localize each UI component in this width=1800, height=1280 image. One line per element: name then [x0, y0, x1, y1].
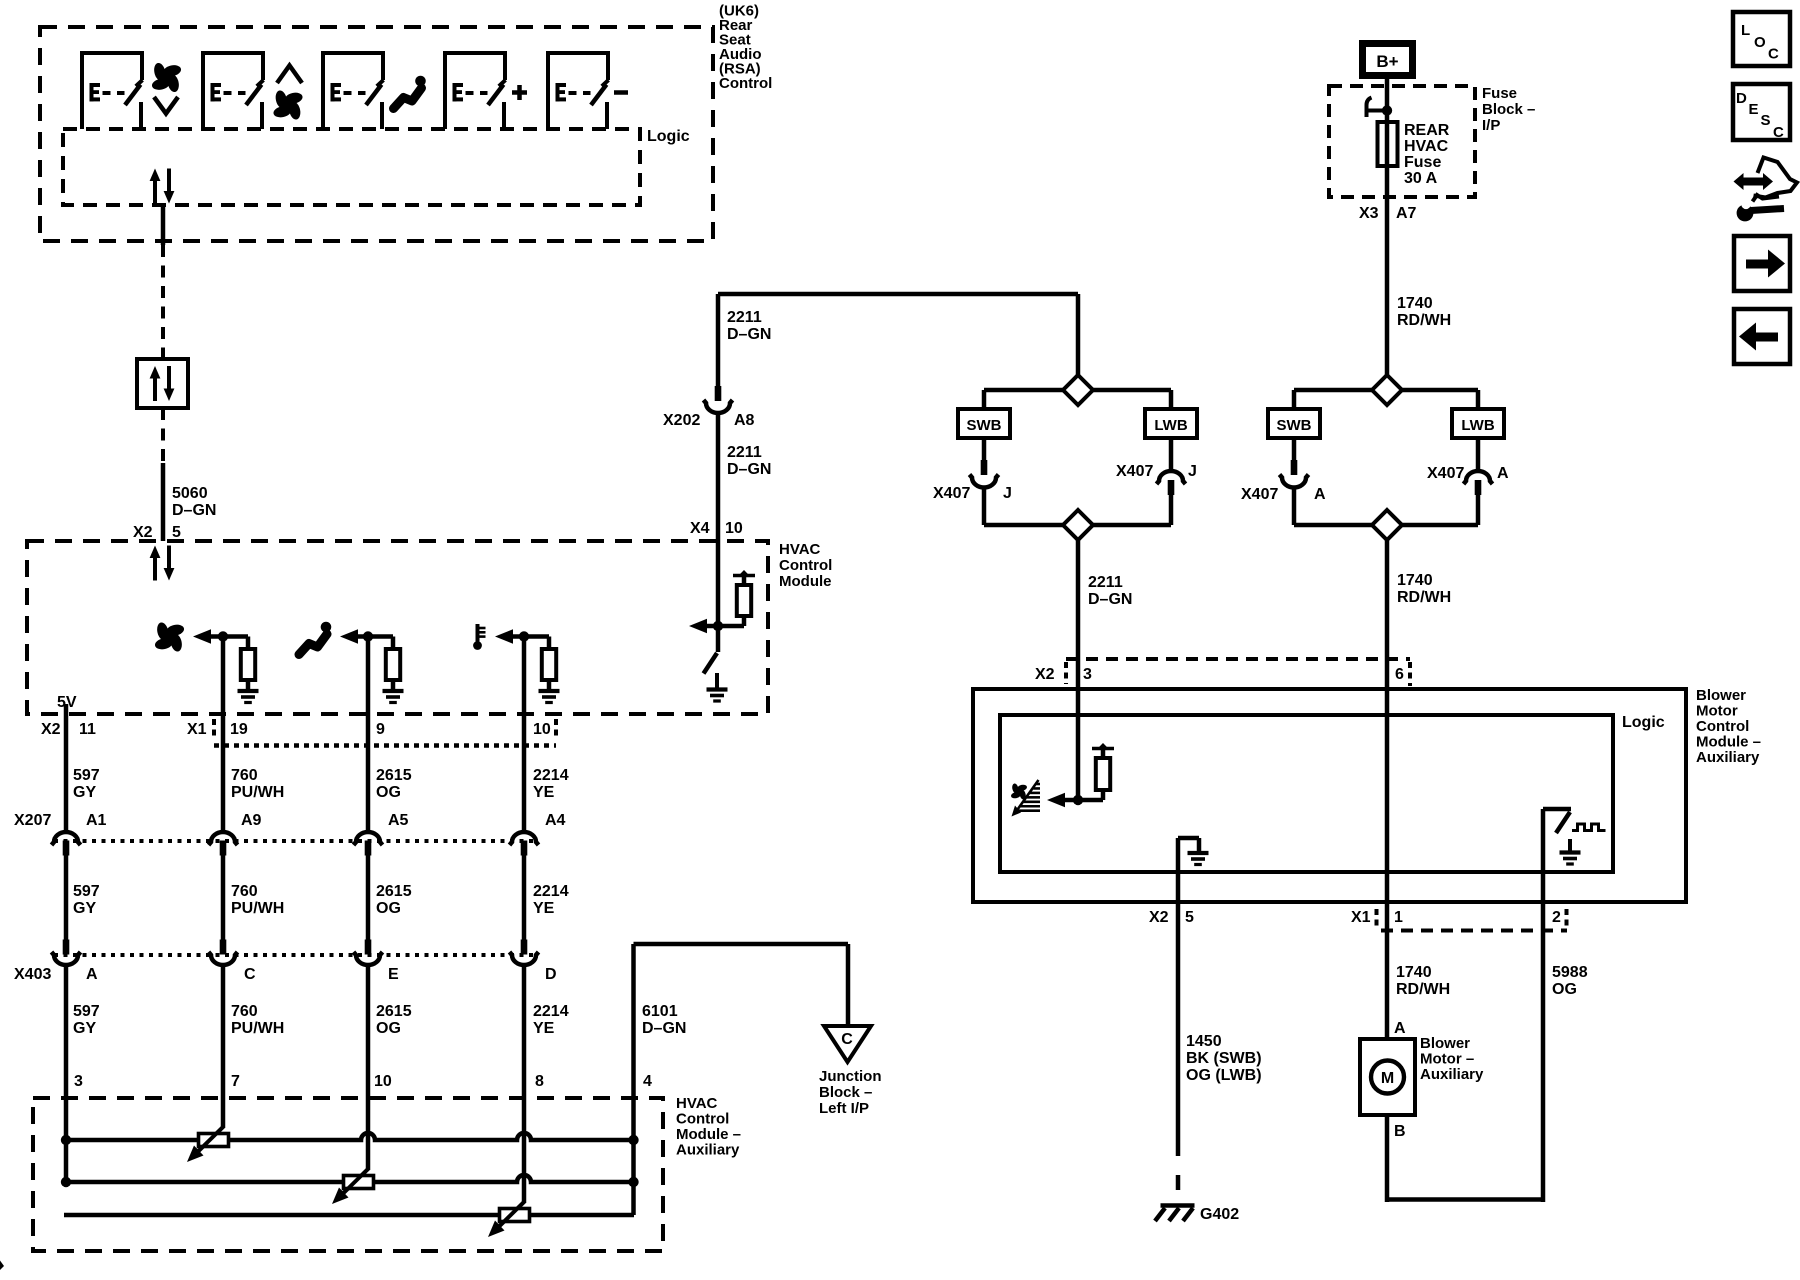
svg-text:11: 11 — [79, 721, 96, 738]
svg-text:D: D — [545, 966, 557, 983]
RSA control outer dashed box — [40, 27, 713, 241]
connector X407 right half — [1157, 471, 1186, 484]
resistor fan channel — [241, 649, 255, 680]
svg-text:J: J — [1188, 463, 1197, 480]
svg-text:1: 1 — [1394, 909, 1403, 926]
page edge artifact mark — [0, 1261, 4, 1271]
connector X207 halves at x=524 — [510, 832, 539, 845]
ground thermo channel — [539, 689, 560, 693]
svg-text:X407: X407 — [1241, 486, 1278, 503]
wire below LWB — [1169, 438, 1174, 472]
svg-text:X4: X4 — [690, 520, 710, 537]
LOC reference box — [1733, 12, 1790, 66]
wire fan channel to resistor — [223, 634, 248, 639]
svg-text:Logic: Logic — [1622, 714, 1665, 731]
svg-text:HVACControlModule: HVACControlModule — [779, 541, 832, 590]
svg-text:10: 10 — [533, 721, 551, 738]
svg-text:JunctionBlock –Left I/P: JunctionBlock –Left I/P — [819, 1068, 882, 1117]
svg-text:2214YE: 2214YE — [533, 767, 569, 801]
wire splice to LWB branch — [1402, 388, 1478, 393]
svg-text:2211D–GN: 2211D–GN — [1088, 574, 1132, 608]
svg-text:760PU/WH: 760PU/WH — [231, 767, 284, 801]
splice diamond top — [1372, 375, 1402, 405]
svg-text:X2: X2 — [133, 524, 153, 541]
svg-text:X1: X1 — [187, 721, 207, 738]
connector X407 left half — [981, 460, 988, 475]
svg-text:A: A — [1394, 1020, 1406, 1037]
Blower Motor Auxiliary box — [1360, 1039, 1415, 1115]
svg-text:5060D–GN: 5060D–GN — [172, 485, 216, 519]
svg-text:2615OG: 2615OG — [376, 1003, 412, 1037]
icon thermometer channel — [476, 624, 480, 643]
connector X1 dotted bracket — [212, 719, 216, 738]
node 2211 logic junction — [1073, 795, 1083, 805]
svg-text:B+: B+ — [1376, 52, 1398, 71]
svg-text:X207: X207 — [14, 812, 51, 829]
svg-text:597GY: 597GY — [73, 1003, 100, 1037]
PWM square wave symbol — [1572, 824, 1606, 831]
wire 760 PU/WH seg3 — [221, 966, 226, 1127]
svg-text:3: 3 — [74, 1073, 83, 1090]
connector X403 halves at x=368 — [365, 940, 372, 955]
connector X207 halves at x=368 — [354, 832, 383, 845]
wire 1740 to splice diamond — [1385, 197, 1390, 375]
connector X207 halves at x=66 — [52, 832, 81, 845]
bus line 2 in aux module — [64, 1175, 634, 1182]
svg-text:A: A — [86, 966, 98, 983]
svg-text:M: M — [1381, 1070, 1394, 1087]
connector X1 dashed bracket blower — [1381, 929, 1567, 933]
wire resistor to ground — [246, 680, 251, 691]
svg-text:760PU/WH: 760PU/WH — [231, 883, 284, 917]
wire X2-5 ground lead — [1176, 838, 1181, 1141]
wire 2211 riser to splice — [1076, 294, 1081, 375]
svg-text:2615OG: 2615OG — [376, 767, 412, 801]
wire 2211 top horizontal — [718, 292, 1078, 297]
wire X407 left to splice bottom — [1292, 487, 1297, 525]
svg-text:2211D–GN: 2211D–GN — [727, 309, 771, 343]
svg-text:BlowerMotor –Auxiliary: BlowerMotor –Auxiliary — [1420, 1035, 1484, 1083]
icon fan channel — [154, 621, 185, 652]
svg-text:Logic: Logic — [647, 128, 690, 145]
DESC reference box — [1733, 84, 1790, 140]
svg-text:A1: A1 — [86, 812, 107, 829]
wire 760 PU/WH seg1 — [221, 637, 226, 832]
wire 6101 drop to junction block — [846, 944, 851, 1027]
wire 2211 splice to blower module — [1076, 540, 1081, 800]
connector X403 halves at x=524 — [521, 940, 528, 955]
svg-text:1740RD/WH: 1740RD/WH — [1397, 295, 1451, 329]
connector X403 halves at x=223 — [220, 940, 227, 955]
B+ battery feed box — [1363, 44, 1413, 76]
wire B+ to fuse — [1385, 79, 1390, 197]
wire below LWB — [1476, 438, 1481, 472]
wire resistor to actuator bar blower — [1101, 750, 1106, 758]
switch S5 minus — [548, 53, 609, 129]
svg-text:L: L — [1741, 22, 1750, 39]
svg-text:X403: X403 — [14, 966, 51, 983]
icon fan up — [277, 66, 302, 84]
ground G402 chassis — [1161, 1203, 1195, 1208]
svg-text:X2: X2 — [1149, 909, 1169, 926]
wire motor B return — [1385, 1115, 1390, 1202]
wire serial data solid segment below RSA logic — [161, 205, 166, 245]
svg-text:4: 4 — [643, 1073, 652, 1090]
svg-text:1740RD/WH: 1740RD/WH — [1397, 572, 1451, 606]
svg-text:8: 8 — [535, 1073, 544, 1090]
svg-text:A7: A7 — [1396, 205, 1417, 222]
node seat channel junction — [363, 631, 373, 641]
svg-text:HVACControlModule –Auxiliary: HVACControlModule –Auxiliary — [676, 1095, 741, 1159]
wire 2615 OG seg3 — [366, 966, 371, 1169]
svg-text:2214YE: 2214YE — [533, 883, 569, 917]
svg-text:6101D–GN: 6101D–GN — [642, 1003, 686, 1037]
wire 5060 solid segment — [161, 463, 166, 541]
wire 2214 YE seg3 — [522, 966, 527, 1202]
arrow to fan icon — [193, 629, 211, 644]
icon seat recline — [394, 76, 426, 109]
wire 2615 OG seg1 — [366, 637, 371, 832]
svg-text:SWB: SWB — [1277, 417, 1312, 434]
arrow to thermometer icon — [495, 629, 513, 644]
svg-text:9: 9 — [376, 721, 385, 738]
wire 597 GY seg2 — [64, 855, 69, 940]
wire resistor to ground 3 — [547, 680, 552, 691]
splice diamond bottom — [1372, 510, 1402, 540]
svg-text:LWB: LWB — [1461, 417, 1494, 434]
svg-text:X3: X3 — [1359, 205, 1379, 222]
node fan channel junction — [218, 631, 228, 641]
arrow to seat icon — [340, 629, 358, 644]
wire ground return in logic box — [1178, 836, 1199, 841]
HVAC updown arrows — [153, 557, 157, 581]
forward reference arrow box — [1734, 236, 1790, 291]
svg-text:O: O — [1754, 34, 1766, 51]
actuator bar blower — [1092, 747, 1114, 751]
LWB option box — [1145, 409, 1197, 438]
RSA logic updown arrows — [153, 180, 157, 204]
svg-text:A: A — [1497, 465, 1509, 482]
svg-text:BlowerMotorControlModule –Auxi: BlowerMotorControlModule –Auxiliary — [1696, 687, 1761, 766]
Blower Motor Control Module outer box — [973, 689, 1686, 902]
svg-text:A: A — [1314, 486, 1326, 503]
svg-text:FuseBlock –I/P: FuseBlock –I/P — [1482, 85, 1535, 134]
switch S1 fan-down — [82, 53, 143, 129]
icon fan down — [151, 62, 182, 93]
wire 5V stub — [64, 704, 69, 714]
svg-text:10: 10 — [374, 1073, 392, 1090]
connector X403 halves at x=66 — [63, 940, 70, 955]
switch blade to ground in HVAC module — [716, 626, 721, 652]
LWB option box — [1452, 409, 1504, 438]
backward reference arrow box — [1734, 309, 1790, 364]
svg-text:X1: X1 — [1351, 909, 1371, 926]
junction block triangle C — [824, 1026, 871, 1062]
splice diamond bottom — [1063, 510, 1093, 540]
arrow blower speed input — [1047, 793, 1065, 808]
switch S2 fan-up — [203, 53, 264, 129]
wire splice to SWB branch — [984, 388, 1063, 393]
connector X2-3 dashed line at blower module — [1066, 657, 1410, 661]
wire 2615 OG seg2 — [366, 855, 371, 940]
svg-text:A4: A4 — [545, 812, 566, 829]
svg-text:5988OG: 5988OG — [1552, 964, 1588, 998]
svg-text:10: 10 — [725, 520, 743, 537]
svg-text:1740RD/WH: 1740RD/WH — [1396, 964, 1450, 998]
svg-text:X202: X202 — [663, 412, 700, 429]
svg-text:5: 5 — [172, 524, 181, 541]
wire 2211 drop to X202 — [716, 294, 721, 386]
wire junction to resistor 2211 — [718, 624, 744, 629]
svg-text:2211D–GN: 2211D–GN — [727, 444, 771, 478]
ground seat channel — [383, 689, 404, 693]
svg-text:2: 2 — [1552, 909, 1561, 926]
wire dashed below arrow box — [161, 408, 165, 463]
svg-text:2214YE: 2214YE — [533, 1003, 569, 1037]
wire 2214 YE seg2 — [522, 855, 527, 940]
svg-text:C: C — [1768, 46, 1779, 63]
service icon middle stroke — [1753, 195, 1780, 202]
actuator bar 2211 — [733, 574, 755, 578]
svg-text:SWB: SWB — [967, 417, 1002, 434]
potentiometer on bus line 3 — [496, 1201, 525, 1230]
icon plus — [512, 90, 527, 95]
service icon squiggle outline — [1754, 158, 1798, 198]
wire 6101 horizontal — [634, 942, 849, 947]
node bus junction dots right — [628, 1135, 638, 1145]
svg-text:S: S — [1761, 112, 1771, 129]
node bus junction dots left — [61, 1135, 71, 1145]
node thermo channel junction — [519, 631, 529, 641]
svg-text:3: 3 — [1083, 666, 1092, 683]
SWB option box — [958, 409, 1010, 438]
bus line 3 in aux module — [64, 1213, 634, 1218]
svg-text:X2: X2 — [1035, 666, 1055, 683]
svg-text:597GY: 597GY — [73, 767, 100, 801]
icon seat channel — [299, 622, 331, 655]
wire seat channel to resistor — [368, 634, 393, 639]
wire 6101 vertical — [631, 944, 636, 1215]
connector X407 left half — [1291, 460, 1298, 475]
Fuse Block IP dashed box — [1329, 86, 1475, 197]
HVAC Control Module dashed box — [27, 541, 768, 714]
node 2211 junction — [713, 621, 723, 631]
service icon double arrow — [1734, 173, 1774, 190]
svg-text:G402: G402 — [1200, 1206, 1239, 1223]
Blower module Logic box — [1000, 715, 1613, 872]
PWM switch in logic box — [1543, 807, 1571, 812]
wire splice to SWB branch — [1294, 388, 1372, 393]
wire resistor to ground 2 — [391, 680, 396, 691]
wire below SWB — [1292, 438, 1297, 461]
svg-text:J: J — [1003, 485, 1012, 502]
connector X403 plane dotted line — [54, 953, 537, 957]
wire 2214 YE seg1 — [522, 637, 527, 832]
svg-text:7: 7 — [231, 1073, 240, 1090]
splice diamond top — [1063, 375, 1093, 405]
wire dashed serial data from RSA logic — [161, 245, 165, 359]
service icon wrench — [1737, 205, 1754, 222]
wire resistor to actuator bar — [742, 577, 747, 585]
svg-text:A5: A5 — [388, 812, 409, 829]
icon minus — [614, 90, 628, 95]
svg-text:597GY: 597GY — [73, 883, 100, 917]
blower motor M circle — [1371, 1061, 1404, 1094]
potentiometer on bus line 2 — [340, 1168, 369, 1197]
wire 1740 splice to blower module — [1385, 540, 1390, 1039]
arrow 2211 logic input — [689, 619, 707, 634]
SWB option box — [1268, 409, 1320, 438]
connector X407 right half — [1464, 471, 1493, 484]
svg-text:C: C — [244, 966, 256, 983]
ground fan channel — [238, 689, 259, 693]
switch S4 plus — [445, 53, 506, 129]
switch S3 seat — [323, 53, 384, 129]
wire splice to LWB branch — [1093, 388, 1171, 393]
svg-text:REARHVACFuse30 A: REARHVACFuse30 A — [1404, 122, 1450, 187]
fuse REAR HVAC 30A body — [1378, 122, 1398, 166]
svg-text:X2: X2 — [41, 721, 61, 738]
wire thermo channel to resistor — [524, 634, 549, 639]
svg-text:760PU/WH: 760PU/WH — [231, 1003, 284, 1037]
wire 5988 from PWM switch — [1541, 809, 1546, 1202]
fuse clip hook — [1367, 98, 1372, 118]
wire X407 right to splice bottom — [1169, 494, 1174, 525]
svg-text:1450BK (SWB)OG (LWB): 1450BK (SWB)OG (LWB) — [1186, 1033, 1262, 1084]
RSA Logic dashed box — [63, 129, 640, 205]
connector X207 plane dotted line — [54, 839, 537, 843]
wire 760 PU/WH seg2 — [221, 855, 226, 940]
wire junction to pullup resistor — [1078, 798, 1103, 803]
connector X202 — [715, 386, 722, 401]
wire 597 GY seg3 — [64, 966, 69, 1182]
ground blower logic left — [1188, 851, 1209, 855]
wire 597 GY seg1 — [64, 714, 69, 831]
svg-text:5: 5 — [1185, 909, 1194, 926]
resistor thermo channel — [542, 649, 556, 680]
wire 1450 dashed to ground — [1176, 1141, 1181, 1202]
svg-text:19: 19 — [230, 721, 248, 738]
svg-text:E: E — [388, 966, 399, 983]
svg-text:E: E — [1749, 101, 1759, 118]
svg-text:A8: A8 — [734, 412, 755, 429]
svg-text:6: 6 — [1395, 666, 1404, 683]
svg-text:A9: A9 — [241, 812, 262, 829]
connector X207 halves at x=223 — [209, 832, 238, 845]
HVAC Control Module Auxiliary dashed box — [33, 1098, 663, 1251]
wire below SWB — [982, 438, 987, 461]
resistor seat channel — [386, 649, 400, 680]
svg-text:X407: X407 — [933, 485, 970, 502]
wire X407 right to splice bottom — [1476, 494, 1481, 525]
svg-text:C: C — [841, 1031, 853, 1048]
updown arrow box on serial wire — [137, 359, 188, 408]
svg-text:X407: X407 — [1427, 465, 1464, 482]
node fuse feed — [1382, 105, 1392, 115]
resistor blower logic pullup — [1096, 758, 1110, 790]
icon small fan with ramp — [1010, 783, 1027, 800]
svg-text:C: C — [1773, 124, 1784, 141]
potentiometer on bus line 1 — [195, 1126, 224, 1155]
ground HVAC module switch — [707, 687, 728, 691]
bus line 1 in aux module — [64, 1133, 634, 1140]
wire 2211 inside HVAC module — [716, 414, 721, 626]
ground PWM switch — [1568, 839, 1572, 852]
svg-text:2615OG: 2615OG — [376, 883, 412, 917]
svg-text:LWB: LWB — [1154, 417, 1187, 434]
resistor 2211 pullup — [737, 585, 751, 616]
svg-text:X407: X407 — [1116, 463, 1153, 480]
wire 5988 bottom horizontal — [1387, 1197, 1543, 1202]
wire X407 left to splice bottom — [982, 487, 987, 525]
svg-text:B: B — [1394, 1123, 1406, 1140]
svg-text:(UK6)RearSeatAudio(RSA)Control: (UK6)RearSeatAudio(RSA)Control — [719, 3, 772, 93]
svg-text:D: D — [1736, 90, 1747, 107]
